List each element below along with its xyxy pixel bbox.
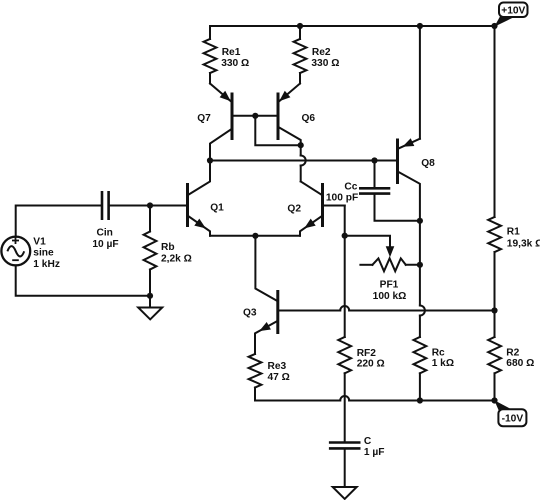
svg-text:Re2: Re2 [312, 47, 331, 58]
junction: Q8 emitter on +10V rail [417, 23, 423, 29]
potentiometer PF1 [386, 246, 395, 257]
svg-text:Q7: Q7 [197, 113, 211, 124]
svg-text:Q8: Q8 [421, 158, 435, 169]
wire: Q2 base feedback line down to RF2 [344, 206, 346, 338]
capacitor Cin [102, 191, 109, 220]
junction: Q6 collector / Q2 collector node [298, 142, 304, 148]
junction: mirror base node [252, 113, 258, 119]
transistor Q7 [210, 84, 231, 102]
junction: Rb top node [147, 202, 153, 208]
svg-text:100 pF: 100 pF [326, 192, 358, 203]
transistor Q1 [186, 183, 189, 227]
svg-text:Q2: Q2 [287, 203, 301, 214]
wire: Re1 to Q7 emitter [209, 73, 211, 84]
resistor Rb [144, 232, 157, 270]
wire: right rail +10V to R1 [494, 26, 496, 217]
wire: emitter rail Q1-Q2 [210, 235, 300, 237]
capacitor Cc [359, 188, 390, 193]
svg-text:Cc: Cc [344, 181, 357, 192]
wire: Cc top lead [374, 161, 376, 188]
wire: tail node down to Q3 collector [255, 236, 276, 301]
transistor Q3 [276, 290, 279, 334]
node -10V supply flag [494, 400, 512, 413]
svg-text:1 kΩ: 1 kΩ [432, 358, 454, 369]
svg-text:Re1: Re1 [222, 47, 241, 58]
capacitor C [329, 443, 361, 449]
svg-text:Rb: Rb [161, 242, 175, 253]
wire: PF1 node down with hop over Q3 base wire [419, 265, 421, 306]
junction: Q1/Q7 collector node [207, 157, 213, 163]
svg-text:R1: R1 [507, 227, 520, 238]
svg-text:Cin: Cin [96, 227, 112, 238]
svg-text:Rc: Rc [432, 348, 445, 359]
wire: C bottom to ground [344, 450, 346, 487]
wire: Rb top lead [149, 206, 151, 232]
wire: Q6 collector down to Q2 collector with hop [300, 145, 302, 155]
svg-text:RF2: RF2 [357, 348, 377, 359]
svg-text:sine: sine [33, 248, 54, 259]
wire: Re2 top lead [299, 26, 301, 39]
svg-text:220 Ω: 220 Ω [357, 358, 385, 369]
wire: ground stub [149, 296, 151, 308]
resistor R1 [488, 217, 501, 252]
source V1 sine [1, 237, 30, 266]
junction: PF1 right end node [417, 262, 423, 268]
svg-text:100 kΩ: 100 kΩ [373, 291, 407, 302]
ground (input) [138, 308, 162, 320]
resistor Re3 [249, 354, 262, 388]
wire: V1 bottom return [16, 265, 150, 295]
ground (output) [333, 487, 357, 499]
wire: R1 bottom to output node [494, 252, 496, 311]
svg-text:Q6: Q6 [302, 113, 316, 124]
junction: output node on right rail [491, 307, 497, 313]
wire: -10V bottom supply rail [255, 400, 495, 402]
resistor RF2 [338, 337, 351, 373]
transistor Q2 [321, 183, 324, 227]
svg-text:C: C [364, 436, 372, 447]
wire: Re3 bottom lead [254, 388, 256, 401]
wire: mirror base to Q6 collector [255, 116, 300, 145]
svg-text:Re3: Re3 [268, 361, 287, 372]
junction: Q8 collector / Cc node [417, 218, 423, 224]
junction: Re2 top on +10V rail [297, 23, 303, 29]
svg-text:+10V: +10V [501, 6, 525, 17]
wire: Re2 to Q6 emitter [299, 73, 301, 84]
resistor R2 [488, 337, 501, 373]
junction: tail node to Q3 [252, 233, 258, 239]
svg-text:2,2k Ω: 2,2k Ω [161, 254, 192, 265]
svg-text:19,3k Ω: 19,3k Ω [507, 239, 540, 250]
svg-text:PF1: PF1 [380, 280, 399, 291]
wire: Cc bottom to Q8 collector [375, 196, 420, 221]
svg-text:Q1: Q1 [210, 202, 224, 213]
wire: first-stage output to Q8 base [210, 160, 396, 162]
wire: Q8 collector to PF1 node [419, 221, 421, 265]
wire: PF1 wiper link to feedback node [345, 236, 390, 251]
wire: Rb bottom to ground node [149, 270, 151, 296]
wire: right rail output node to R2 [494, 311, 496, 338]
svg-text:10 µF: 10 µF [92, 239, 118, 250]
junction: feedback / PF1 wiper node [342, 233, 348, 239]
wire: R2 bottom to -10V corner [494, 373, 496, 400]
wire: Q2 base lead [324, 205, 345, 207]
svg-text:1 kHz: 1 kHz [33, 259, 60, 270]
resistor Rc [414, 337, 427, 373]
wire: hop of -10V rail over C line [340, 396, 349, 401]
resistor Re2 [294, 39, 307, 73]
svg-text:680 Ω: 680 Ω [506, 358, 534, 369]
wire: V1 top to Cin [16, 206, 101, 237]
wire: +10V top supply rail [210, 25, 495, 27]
transistor Q8 [399, 139, 420, 149]
svg-text:R2: R2 [506, 348, 519, 359]
resistor Re1 [204, 39, 217, 73]
wire: +10V rail down to Q8 emitter [419, 26, 421, 139]
junction: input ground node [147, 293, 153, 299]
wire: Q3 base wire to output node with hop over feedback line [279, 310, 340, 312]
node +10V supply flag [494, 15, 513, 27]
junction: +10V rail right corner [491, 23, 497, 29]
transistor Q6 [279, 84, 300, 102]
wire: RF2 bottom to C [344, 373, 346, 441]
svg-text:1 µF: 1 µF [364, 447, 385, 458]
svg-text:330 Ω: 330 Ω [311, 58, 339, 69]
junction: Rc bottom on -10V rail [417, 397, 423, 403]
svg-text:47 Ω: 47 Ω [268, 372, 290, 383]
svg-text:V1: V1 [33, 236, 46, 247]
wire: Re1 top lead [209, 26, 211, 39]
svg-text:330 Ω: 330 Ω [221, 58, 249, 69]
wire: Cin to Q1 base [110, 205, 186, 207]
svg-text:Q3: Q3 [243, 307, 257, 318]
junction: Cc top tap on Q8 base wire [371, 157, 377, 163]
svg-text:-10V: -10V [502, 414, 524, 425]
junction: -10V rail right end [491, 397, 497, 403]
wire: Rc bottom lead [419, 373, 421, 400]
wire: Q7-Q6 base link [234, 115, 277, 117]
